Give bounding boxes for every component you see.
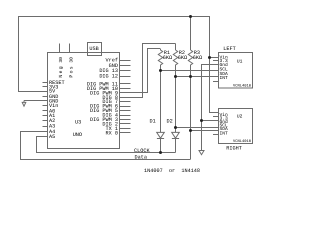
top pin stub 1 bbox=[59, 44, 61, 54]
junction R3 column / SDA wire bbox=[189, 75, 192, 78]
svg-text:RX 0: RX 0 bbox=[106, 130, 118, 136]
svg-text:DIG 12: DIG 12 bbox=[99, 74, 118, 80]
wire R1 bottom to U1 SCL bbox=[161, 70, 219, 72]
wire column D2: SDA wire through diode to CLOCK bus end bbox=[175, 66, 177, 153]
microcontroller U3 box bbox=[48, 53, 120, 149]
svg-text:U1: U1 bbox=[237, 58, 243, 64]
svg-text:6KΩ: 6KΩ bbox=[163, 55, 172, 61]
junction GND column / U2 Gnd bbox=[200, 119, 203, 122]
right pin labels bbox=[87, 58, 118, 137]
junction D1 column / CLOCK bus bbox=[159, 151, 162, 154]
svg-text:UNO: UNO bbox=[73, 132, 82, 138]
diode D2 bbox=[172, 132, 180, 138]
svg-text:U2: U2 bbox=[237, 114, 243, 120]
svg-text:Neg: Neg bbox=[58, 65, 64, 78]
wire GND net: U1 Gnd down to ground, branch U2 Gnd bbox=[202, 65, 219, 151]
svg-text:D1: D1 bbox=[150, 118, 156, 124]
junction R1 bottom / SCL wire bbox=[159, 69, 162, 72]
svg-text:6KΩ: 6KΩ bbox=[193, 55, 202, 61]
wire A5 to CLOCK bus bbox=[37, 137, 176, 153]
resistor R1 bbox=[158, 49, 162, 66]
wire column D1: R1 bottom through diode to CLOCK bus bbox=[160, 66, 162, 153]
svg-text:VCNL4010: VCNL4010 bbox=[233, 139, 252, 144]
wire R2/R3 bottom SDA to U1 SDA bbox=[176, 76, 219, 78]
right pin stubs bbox=[120, 61, 131, 133]
wire DIG PWM 9 to R1 top bbox=[120, 49, 161, 93]
wire A4 to DATA bus bbox=[21, 132, 191, 160]
wire U2 SCL from D2 column bbox=[176, 127, 219, 129]
top pin stub 2 bbox=[69, 44, 71, 54]
wire 5V branch to U1 Vin bbox=[210, 57, 219, 59]
wire column R3 riser: 5V through R3 down to DATA bus bbox=[190, 66, 192, 159]
svg-text:USB: USB bbox=[89, 46, 98, 52]
resistor R2 bbox=[173, 44, 177, 67]
svg-text:INT: INT bbox=[220, 130, 229, 136]
svg-text:VCNL4010: VCNL4010 bbox=[233, 84, 252, 89]
left pin stubs bbox=[43, 83, 48, 127]
junction 5V rail / U1 Vin bbox=[208, 56, 211, 59]
ground (left) bbox=[22, 101, 47, 107]
svg-text:1N4007 or 1N4148: 1N4007 or 1N4148 bbox=[144, 168, 200, 174]
junction dots bbox=[159, 15, 211, 154]
sensor U1 box bbox=[219, 53, 253, 89]
svg-text:LEFT: LEFT bbox=[223, 46, 235, 52]
svg-text:30: 30 bbox=[58, 57, 64, 63]
wire 5V net: 5V pin left loop top rail to sensors bbox=[19, 17, 219, 113]
svg-text:U3: U3 bbox=[75, 120, 81, 126]
svg-text:30: 30 bbox=[68, 57, 74, 63]
junction 5V rail / R3 top bbox=[189, 15, 192, 18]
junction D2 column / U2 SCL wire bbox=[174, 126, 177, 129]
svg-text:INT: INT bbox=[220, 75, 229, 81]
ground (right) bbox=[199, 151, 204, 155]
U2 pin stubs bbox=[213, 117, 218, 135]
U1 pin stubs bbox=[213, 61, 218, 82]
svg-text:Pos: Pos bbox=[69, 65, 75, 78]
resistor R3 bbox=[188, 17, 192, 67]
diode D1 bbox=[157, 132, 165, 138]
svg-text:D2: D2 bbox=[167, 118, 173, 124]
svg-text:CLOCK: CLOCK bbox=[134, 148, 150, 154]
svg-text:RIGHT: RIGHT bbox=[226, 146, 242, 152]
svg-text:A5: A5 bbox=[49, 134, 55, 140]
junction riser / U2 SDA wire bbox=[189, 129, 192, 132]
svg-text:Data: Data bbox=[135, 154, 147, 160]
wire DIG 8 to R2 top bbox=[120, 44, 176, 98]
svg-text:6KΩ: 6KΩ bbox=[178, 55, 187, 61]
wire U2 SDA from riser bbox=[191, 130, 219, 132]
junction R2 bottom / SDA wire bbox=[174, 75, 177, 78]
sensor U2 box bbox=[219, 109, 253, 144]
USB box bbox=[88, 43, 102, 56]
